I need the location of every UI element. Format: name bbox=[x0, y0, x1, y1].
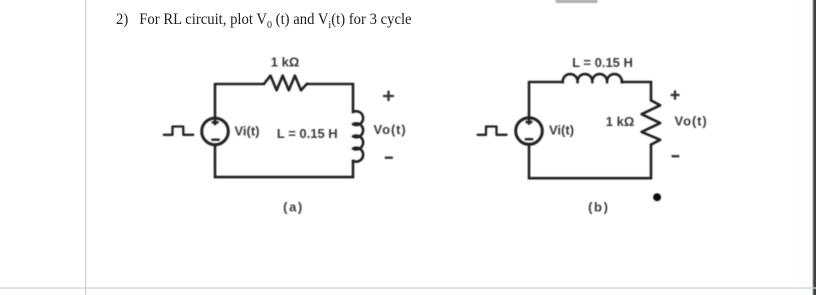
wire: circuit (b) right bottom segment bbox=[650, 145, 653, 179]
source V1 Vi(t) circle (circuit a) bbox=[202, 118, 229, 145]
faint page rule, left bbox=[85, 0, 86, 295]
inductor L2 = 0.15 H (circuit b, top) bbox=[563, 74, 622, 82]
node dot (below circuit b) bbox=[653, 193, 661, 201]
wire: circuit (b) top-right segment bbox=[622, 81, 651, 84]
wire: circuit (b) left top segment bbox=[528, 82, 531, 125]
inductor L1 = 0.15 H (circuit a, right side) bbox=[353, 111, 363, 161]
resistor R2 1 kΩ (circuit b, right side) bbox=[642, 100, 661, 144]
wire: circuit (b) bottom bbox=[529, 177, 651, 180]
title text bbox=[116, 11, 412, 29]
source V2 Vi(t) circle (circuit b) bbox=[516, 118, 543, 145]
wire: circuit (a) left bottom segment bbox=[214, 145, 217, 177]
wire: circuit (b) right top segment bbox=[650, 82, 653, 100]
wire: circuit (a) right bottom segment bbox=[352, 161, 355, 177]
wire: circuit (a) top-left segment bbox=[215, 83, 264, 86]
source V1 plus sign bbox=[211, 122, 219, 139]
svg-text:L = 0.15 H: L = 0.15 H bbox=[277, 126, 338, 141]
page border line, right edge bbox=[813, 0, 816, 295]
svg-text:Vi(t): Vi(t) bbox=[235, 124, 260, 139]
wire: circuit (a) left top segment bbox=[214, 84, 217, 125]
wire: circuit (b) top-left segment bbox=[529, 81, 563, 84]
cropped mark, top center bbox=[556, 0, 598, 3]
label + (circuit b output) bbox=[671, 90, 680, 99]
svg-text:(a): (a) bbox=[283, 199, 304, 214]
wire: circuit (a) bottom bbox=[215, 176, 353, 179]
source V2 plus sign bbox=[525, 122, 533, 139]
svg-text:Vi(t): Vi(t) bbox=[549, 123, 574, 138]
label − (circuit b output) bbox=[672, 155, 680, 158]
svg-text:1 kΩ: 1 kΩ bbox=[606, 114, 635, 129]
source V1 minus sign bbox=[211, 138, 219, 140]
label − (circuit a output) bbox=[385, 156, 393, 159]
wire: circuit (a) right top segment bbox=[352, 84, 355, 112]
faint page rule, bottom bbox=[0, 287, 816, 288]
label + (circuit a output) bbox=[383, 91, 394, 101]
wire: circuit (a) top-right segment bbox=[307, 83, 353, 86]
wire: circuit (b) left bottom segment bbox=[528, 144, 531, 178]
svg-text:L = 0.15 H: L = 0.15 H bbox=[572, 55, 633, 70]
svg-text:Vo(t): Vo(t) bbox=[675, 114, 708, 129]
svg-text:(b): (b) bbox=[588, 200, 609, 215]
svg-text:Vo(t): Vo(t) bbox=[374, 122, 407, 137]
svg-text:1 kΩ: 1 kΩ bbox=[271, 55, 300, 70]
resistor R1 1 kΩ (circuit a, top) bbox=[264, 76, 307, 91]
pulse waveform symbol (circuit b) bbox=[478, 127, 507, 135]
source V2 minus sign bbox=[525, 138, 533, 140]
pulse waveform symbol (circuit a) bbox=[164, 127, 194, 135]
